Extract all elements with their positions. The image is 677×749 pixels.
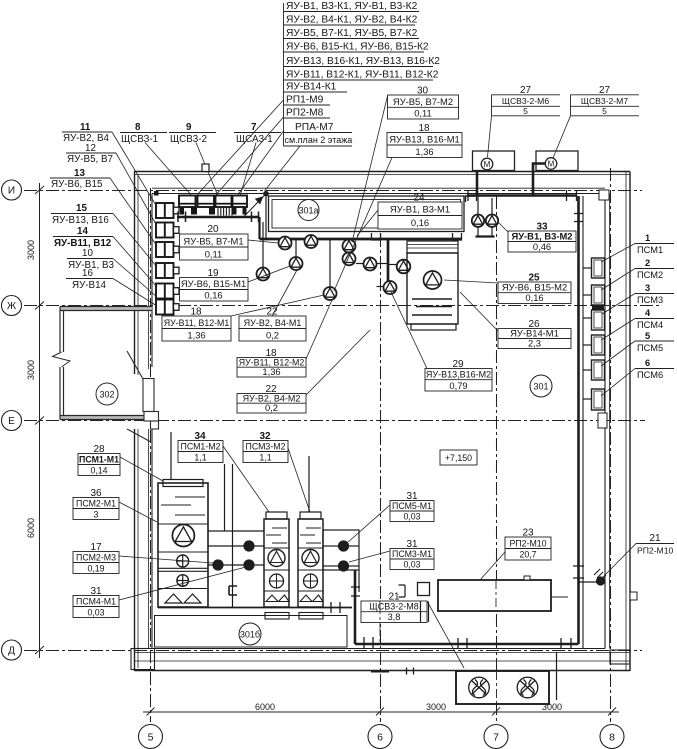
svg-text:ЯУ-В6, В15-М2: ЯУ-В6, В15-М2 bbox=[502, 282, 567, 293]
svg-text:РП2-М10: РП2-М10 bbox=[637, 546, 673, 556]
partition wall bbox=[582, 196, 584, 648]
wall top bbox=[134, 171, 630, 173]
axis tick block bbox=[154, 191, 159, 196]
svg-text:ЯУ-В5, В7-М2: ЯУ-В5, В7-М2 bbox=[393, 96, 453, 107]
svg-text:ПСМ6: ПСМ6 bbox=[637, 370, 663, 380]
svg-text:ЯУ-В5, В7-К1, ЯУ-В5, В7-К2: ЯУ-В5, В7-К1, ЯУ-В5, В7-К2 bbox=[286, 28, 418, 39]
box ЩСВ3-2-М8 unit edge bbox=[421, 602, 429, 623]
svg-text:3,8: 3,8 bbox=[387, 611, 400, 622]
svg-text:5: 5 bbox=[148, 732, 154, 744]
svg-text:ПСМ2: ПСМ2 bbox=[637, 270, 663, 280]
pump P1 bbox=[279, 237, 292, 250]
label 11 ЯУ-В2, В4 bbox=[62, 122, 157, 207]
svg-text:2: 2 bbox=[645, 258, 650, 268]
clamp on base bbox=[331, 602, 340, 613]
svg-text:0,16: 0,16 bbox=[204, 290, 222, 301]
cable from M1 bbox=[476, 171, 479, 197]
box ПСМ3 bbox=[592, 310, 605, 330]
vent unit box 2 bbox=[536, 151, 578, 171]
callout 21 ЩСВ3-2-М8 bbox=[361, 592, 464, 669]
svg-text:21: 21 bbox=[649, 533, 661, 544]
bubble Ж bbox=[2, 296, 22, 316]
svg-text:15: 15 bbox=[76, 203, 87, 214]
svg-text:ЯУ-В11, В12-М1: ЯУ-В11, В12-М1 bbox=[164, 318, 230, 328]
pilaster at E axis bbox=[598, 413, 607, 428]
svg-text:ЩСВ3-2-М7: ЩСВ3-2-М7 bbox=[581, 96, 628, 106]
svg-text:ПСМ3-М2: ПСМ3-М2 bbox=[246, 442, 286, 452]
panel ЩСВЗ-1 bbox=[179, 196, 196, 208]
pump P9 bbox=[397, 260, 411, 274]
svg-text:11: 11 bbox=[80, 122, 91, 133]
cable run bbox=[467, 194, 577, 197]
svg-text:6000: 6000 bbox=[255, 702, 275, 712]
unit U3 bbox=[298, 512, 323, 619]
room tag 301б bbox=[239, 623, 261, 645]
svg-text:ЯУ-В5, В7-М1: ЯУ-В5, В7-М1 bbox=[183, 236, 243, 247]
pump P6 bbox=[257, 268, 270, 281]
svg-text:3: 3 bbox=[645, 283, 650, 293]
bubble Д bbox=[2, 640, 22, 660]
axis 8 bbox=[610, 168, 612, 722]
axis И bbox=[24, 190, 642, 192]
left dimension line bbox=[39, 183, 41, 658]
label 3 ПСМ3 bbox=[602, 283, 674, 314]
svg-text:27: 27 bbox=[520, 85, 532, 96]
callout 31 ПСМ3-М1 bbox=[349, 539, 434, 570]
annex top wall bbox=[60, 306, 152, 308]
unit U1 big bbox=[158, 480, 208, 608]
valve dot D bbox=[338, 540, 349, 551]
annex bottom wall bbox=[60, 415, 144, 417]
clamp on riser upper bbox=[574, 214, 583, 222]
callout 29 ЯУ-В13,В16-М2 bbox=[391, 292, 492, 391]
svg-text:РП2-М8: РП2-М8 bbox=[286, 108, 324, 119]
svg-text:1,1: 1,1 bbox=[259, 453, 271, 463]
axis 7 bbox=[496, 196, 498, 722]
pump P2 bbox=[305, 235, 318, 248]
panel ЩСВ3-2 bbox=[198, 196, 215, 208]
label 4 ПСМ4 bbox=[601, 308, 674, 340]
bubble 7 bbox=[484, 725, 508, 749]
svg-text:3: 3 bbox=[94, 510, 99, 520]
svg-text:0,03: 0,03 bbox=[87, 608, 104, 618]
svg-text:1: 1 bbox=[645, 233, 650, 243]
label 13 ЯУ-В6, В15 bbox=[50, 168, 157, 246]
valve V2 bbox=[486, 215, 498, 227]
svg-text:13: 13 bbox=[74, 168, 85, 179]
svg-text:ПСМ2-М3: ПСМ2-М3 bbox=[76, 553, 116, 563]
svg-text:0,14: 0,14 bbox=[90, 466, 107, 476]
label 7 ЩСА3-1 bbox=[234, 122, 281, 196]
valve dot E bbox=[338, 560, 349, 571]
manifold right of U3 bbox=[323, 530, 359, 592]
svg-text:M: M bbox=[484, 160, 491, 169]
junction block bbox=[592, 306, 604, 310]
base line bbox=[158, 607, 352, 609]
manifold pipes U1-U2 bbox=[171, 432, 309, 607]
svg-text:0,19: 0,19 bbox=[87, 564, 104, 574]
callout 31 ПСМ4-М1 bbox=[73, 567, 246, 618]
tray run bbox=[177, 216, 250, 219]
svg-text:6: 6 bbox=[377, 732, 383, 744]
svg-text:3000: 3000 bbox=[426, 702, 446, 712]
axis Е bbox=[24, 420, 645, 422]
callout 18 ЯУ-В13,В16-М1 bbox=[334, 123, 462, 291]
svg-text:301: 301 bbox=[533, 382, 548, 392]
callout 31 ПСМ5-М1 bbox=[347, 491, 434, 543]
svg-text:ЯУ-В6, В15: ЯУ-В6, В15 bbox=[51, 179, 103, 190]
axis 7 overlay bbox=[495, 580, 497, 611]
label 9 ЩСВ3-2 bbox=[169, 122, 218, 196]
svg-text:0,16: 0,16 bbox=[411, 217, 429, 228]
svg-text:1,36: 1,36 bbox=[415, 146, 433, 157]
svg-text:ЯУ-В5, В7: ЯУ-В5, В7 bbox=[67, 154, 113, 165]
panel 4 bbox=[233, 196, 248, 208]
svg-text:5: 5 bbox=[602, 106, 607, 116]
svg-text:301б: 301б bbox=[240, 630, 260, 640]
annex left wall bbox=[59, 307, 61, 353]
riser pipes up bbox=[224, 464, 226, 531]
bubble 6 bbox=[368, 725, 392, 749]
svg-text:7: 7 bbox=[251, 122, 257, 133]
cable from M2 bbox=[533, 164, 546, 197]
axis 6 bbox=[380, 234, 382, 722]
svg-text:ПСМ1: ПСМ1 bbox=[637, 245, 663, 255]
callout 18 ЯУ-В11,В12-М1 bbox=[162, 295, 324, 341]
tray clamp right bbox=[252, 212, 259, 223]
svg-text:3000: 3000 bbox=[26, 240, 36, 260]
motor M1 bbox=[481, 158, 493, 170]
box ЯУ-В11,В12 bbox=[156, 284, 179, 299]
svg-text:16: 16 bbox=[82, 268, 93, 279]
pump P10 bbox=[384, 281, 397, 294]
svg-text:3000: 3000 bbox=[26, 360, 36, 380]
svg-text:ЯУ-В13,В16-М2: ЯУ-В13,В16-М2 bbox=[426, 370, 491, 380]
label 10 ЯУ-В1, В3 bbox=[67, 248, 157, 297]
label 6 ПСМ6 bbox=[601, 358, 674, 396]
annex top wall fill bbox=[60, 307, 152, 311]
box ЯУ-В6,В15 bbox=[156, 242, 179, 257]
drop to pipe bbox=[258, 217, 260, 239]
pipe clamp right bbox=[453, 233, 462, 240]
svg-text:ПСМ1-М1: ПСМ1-М1 bbox=[79, 455, 119, 465]
svg-text:0,79: 0,79 bbox=[449, 380, 467, 391]
valve dot B bbox=[212, 559, 223, 570]
clamp fan box inlet bbox=[407, 668, 414, 675]
svg-text:20: 20 bbox=[207, 224, 219, 235]
room tag 302 bbox=[96, 383, 118, 405]
svg-text:ПСМ4: ПСМ4 bbox=[637, 320, 663, 330]
panel ЩСА3-1 bbox=[216, 196, 232, 208]
svg-text:0,16: 0,16 bbox=[525, 292, 543, 303]
valve V1 bbox=[472, 215, 484, 227]
callout 32 ПСМ3-М2 bbox=[243, 431, 310, 512]
callout 17 ПСМ2-М3 bbox=[73, 542, 213, 574]
svg-text:0,03: 0,03 bbox=[403, 512, 420, 522]
axis 6 wall tick bbox=[371, 671, 389, 673]
stub connectors bbox=[583, 268, 592, 399]
box ЯУ-В13,В16 bbox=[156, 263, 179, 278]
clamp bbox=[351, 587, 360, 596]
svg-text:ЯУ-В14-К1: ЯУ-В14-К1 bbox=[286, 82, 337, 93]
cable comb under panels bbox=[218, 208, 232, 216]
axis 5 bbox=[150, 188, 152, 722]
callout 22 ЯУ-В2,В4-М2 bbox=[237, 330, 370, 413]
bubble 8 bbox=[600, 725, 624, 749]
svg-text:РП1-М9: РП1-М9 bbox=[286, 95, 324, 106]
box ЩСВ3-2-М8 unit bbox=[418, 583, 430, 596]
svg-text:РП2-М10: РП2-М10 bbox=[509, 539, 546, 549]
bubble 5 bbox=[139, 725, 163, 749]
callout 34 ПСМ1-М2 bbox=[178, 431, 269, 512]
valve pair pipes bbox=[477, 196, 479, 215]
clamp bbox=[468, 190, 477, 201]
svg-text:27: 27 bbox=[599, 85, 611, 96]
callout 25 ЯУ-В6,В15-М2 bbox=[444, 273, 571, 304]
svg-text:ЯУ-В13, В16-К1, ЯУ-В13, В16-К2: ЯУ-В13, В16-К1, ЯУ-В13, В16-К2 bbox=[286, 56, 440, 67]
small box on top wall bbox=[202, 164, 209, 172]
label 14 ЯУ-В11, В12 bbox=[53, 226, 157, 287]
svg-text:ЩСВЗ-1: ЩСВЗ-1 bbox=[121, 134, 158, 145]
svg-text:8: 8 bbox=[609, 732, 615, 744]
svg-text:ЯУ-В14: ЯУ-В14 bbox=[72, 280, 107, 291]
svg-text:6: 6 bbox=[645, 358, 650, 368]
vent unit box 1 bbox=[473, 151, 515, 171]
callout 22 ЯУ-В2,В4-М1 bbox=[239, 270, 306, 341]
clamp on riser bottom bbox=[561, 638, 571, 649]
svg-text:ЯУ-В2, В4-К1, ЯУ-В2, В4-К2: ЯУ-В2, В4-К1, ЯУ-В2, В4-К2 bbox=[286, 15, 418, 26]
corner block right bbox=[610, 650, 630, 664]
label 5 ПСМ5 bbox=[601, 331, 674, 366]
svg-text:ПСМ1-М2: ПСМ1-М2 bbox=[181, 442, 221, 452]
label 15 ЯУ-В13, В16 bbox=[51, 203, 157, 267]
svg-text:M: M bbox=[548, 160, 555, 169]
svg-text:4: 4 bbox=[645, 308, 651, 318]
clamp bottom wall bbox=[458, 638, 467, 649]
clamp on riser bbox=[573, 566, 584, 578]
label 1 ПСМ1 bbox=[601, 233, 674, 262]
room tag 301 bbox=[530, 375, 552, 397]
svg-text:ПСМ3-М1: ПСМ3-М1 bbox=[392, 549, 432, 559]
pilaster at top right bbox=[599, 190, 609, 200]
svg-text:10: 10 bbox=[82, 248, 93, 259]
bubble И bbox=[2, 180, 22, 200]
svg-text:5: 5 bbox=[645, 331, 650, 341]
axis Д bbox=[24, 650, 642, 652]
corner block bbox=[131, 649, 155, 670]
pump P5 bbox=[290, 257, 303, 270]
pump P4 bbox=[343, 252, 356, 265]
callout 24 ЯУ-В1,В3-М1 bbox=[357, 193, 462, 237]
svg-text:1,36: 1,36 bbox=[187, 330, 205, 341]
svg-text:ПСМ4-М1: ПСМ4-М1 bbox=[76, 597, 116, 607]
svg-text:ЯУ-В13, В16-М1: ЯУ-В13, В16-М1 bbox=[389, 134, 460, 145]
pump P3 bbox=[343, 240, 356, 253]
riser right bbox=[577, 196, 580, 644]
svg-text:2,3: 2,3 bbox=[528, 338, 541, 349]
svg-text:+7,150: +7,150 bbox=[445, 453, 472, 463]
svg-text:Ж: Ж bbox=[7, 301, 17, 312]
unit U2 bbox=[264, 512, 289, 619]
svg-text:302: 302 bbox=[99, 390, 114, 400]
svg-text:ЩСВ3-2-М8: ЩСВ3-2-М8 bbox=[369, 602, 418, 612]
axis Ж bbox=[24, 305, 660, 307]
box ПСМ2 bbox=[592, 285, 605, 305]
tray clamp left bbox=[178, 212, 186, 223]
box ПСМ5 bbox=[592, 360, 605, 380]
pump P7 bbox=[324, 287, 337, 300]
pump P8 bbox=[364, 258, 377, 271]
callout 27 ЩСВ3-2-М7 bbox=[553, 85, 639, 158]
label 16 ЯУ-В14 bbox=[66, 268, 157, 306]
svg-text:ЯУ-В13, В16: ЯУ-В13, В16 bbox=[52, 215, 109, 226]
callout 19 ЯУ-В6,В15-М1 bbox=[180, 266, 291, 301]
svg-text:см.план 2 этажа: см.план 2 этажа bbox=[285, 135, 353, 145]
svg-text:РПА-М7: РПА-М7 bbox=[295, 122, 334, 133]
motor M2 bbox=[545, 158, 557, 170]
callout 27 ЩСВ3-2-М6 bbox=[488, 85, 561, 157]
svg-text:0,2: 0,2 bbox=[266, 330, 279, 341]
svg-text:ЩСВ3-2-М6: ЩСВ3-2-М6 bbox=[502, 96, 549, 106]
cable riser mid bbox=[354, 570, 357, 644]
svg-text:ЯУ-В1, В3-М2: ЯУ-В1, В3-М2 bbox=[511, 231, 572, 242]
label 8 ЩСВЗ-1 bbox=[120, 122, 192, 196]
pipe clamp at axis 6 bbox=[372, 233, 381, 240]
callout 36 ПСМ2-М1 bbox=[73, 488, 157, 522]
svg-text:6000: 6000 bbox=[26, 518, 36, 538]
callout 28 ПСМ1-М1 bbox=[78, 444, 163, 481]
svg-text:12: 12 bbox=[85, 143, 96, 154]
svg-text:20,7: 20,7 bbox=[519, 550, 536, 560]
box ЯУ-В2,В4 bbox=[156, 203, 179, 218]
wall bottom bbox=[152, 648, 605, 650]
svg-text:ПСМ5-М1: ПСМ5-М1 bbox=[392, 501, 432, 511]
pilaster right wall bbox=[630, 592, 637, 600]
svg-text:ЯУ-В6, В15-М1: ЯУ-В6, В15-М1 bbox=[181, 278, 246, 289]
door opening left wall bbox=[127, 351, 159, 442]
axis 6 overlay bbox=[379, 601, 381, 643]
callout 20 ЯУ-В5,В7-М1 bbox=[180, 224, 279, 260]
svg-text:1,1: 1,1 bbox=[194, 453, 206, 463]
svg-text:0,11: 0,11 bbox=[414, 108, 432, 119]
callout 33 ЯУ-В1,В3-М2 bbox=[499, 222, 577, 253]
box ПСМ1 bbox=[592, 258, 605, 278]
svg-text:1,36: 1,36 bbox=[262, 366, 280, 377]
valve dot C bbox=[243, 559, 254, 570]
svg-text:0,03: 0,03 bbox=[403, 560, 420, 570]
callout 21 РП2-М10 right bbox=[603, 533, 674, 577]
box ПСМ6 bbox=[592, 389, 605, 410]
fan F1 bbox=[469, 677, 490, 698]
svg-text:ЩСВ3-2: ЩСВ3-2 bbox=[170, 134, 207, 145]
callout 30 ЯУ-В5,В7-М2 bbox=[352, 86, 459, 243]
svg-text:0,46: 0,46 bbox=[533, 241, 551, 252]
riser to pump row bbox=[295, 240, 297, 258]
valve dot A bbox=[243, 540, 254, 551]
svg-text:И: И bbox=[8, 186, 15, 197]
feeder list border bbox=[283, 3, 285, 146]
callout 26 ЯУ-В14-М1 bbox=[460, 292, 571, 349]
svg-text:ЯУ-В11, В12-К1, ЯУ-В11, В12-К2: ЯУ-В11, В12-К1, ЯУ-В11, В12-К2 bbox=[286, 70, 439, 81]
svg-text:301а: 301а bbox=[298, 206, 318, 216]
svg-text:7: 7 bbox=[493, 732, 499, 744]
callout 18 ЯУ-В11,В12-М2 bbox=[237, 300, 332, 377]
axis 7 overlay fan box bbox=[496, 671, 498, 704]
svg-text:9: 9 bbox=[186, 122, 192, 133]
wall right bbox=[604, 194, 606, 649]
cable run bottom bbox=[355, 643, 579, 646]
svg-text:5: 5 bbox=[523, 106, 528, 116]
room tag 301а bbox=[298, 200, 319, 221]
clamp bbox=[567, 190, 577, 201]
svg-text:ЯУ-В6, В15-К1, ЯУ-В6, В15-К2: ЯУ-В6, В15-К1, ЯУ-В6, В15-К2 bbox=[286, 42, 429, 53]
box ЯУ-В14 bbox=[156, 300, 179, 315]
svg-text:Д: Д bbox=[8, 646, 15, 657]
leaders from feeder list bbox=[196, 100, 300, 196]
svg-text:Е: Е bbox=[8, 416, 15, 427]
svg-text:ЯУ-В2, В4-М1: ЯУ-В2, В4-М1 bbox=[244, 318, 302, 328]
box ПСМ4 bbox=[592, 335, 605, 355]
svg-text:0,11: 0,11 bbox=[205, 249, 223, 260]
svg-text:ПСМ3: ПСМ3 bbox=[637, 295, 663, 305]
box ЯУ-В5,В7 bbox=[156, 223, 179, 238]
svg-text:ПСМ2-М1: ПСМ2-М1 bbox=[76, 499, 116, 509]
label 12 ЯУ-В5, В7 bbox=[66, 143, 157, 226]
callout 23 РП2-М10 bbox=[480, 528, 551, 581]
bubble Е bbox=[2, 411, 22, 431]
pump P11 bbox=[424, 271, 442, 289]
clamp bbox=[364, 637, 373, 648]
svg-text:ПСМ5: ПСМ5 bbox=[637, 343, 663, 353]
svg-text:8: 8 bbox=[135, 122, 141, 133]
svg-text:ЯУ-В1, В3-М1: ЯУ-В1, В3-М1 bbox=[390, 204, 450, 215]
svg-text:0,2: 0,2 bbox=[265, 402, 278, 413]
svg-text:ЯУ-В1, В3-К1, ЯУ-В1, В3-К2: ЯУ-В1, В3-К1, ЯУ-В1, В3-К2 bbox=[286, 1, 418, 12]
fan F2 bbox=[517, 677, 538, 698]
svg-text:14: 14 bbox=[77, 226, 88, 237]
elevation mark +7,150 bbox=[440, 450, 477, 465]
wall left bbox=[134, 172, 136, 375]
panel legs bbox=[180, 208, 247, 215]
wall break symbol bbox=[53, 352, 71, 367]
label 2 ПСМ2 bbox=[601, 258, 674, 290]
bottom dimension line bbox=[143, 711, 619, 713]
